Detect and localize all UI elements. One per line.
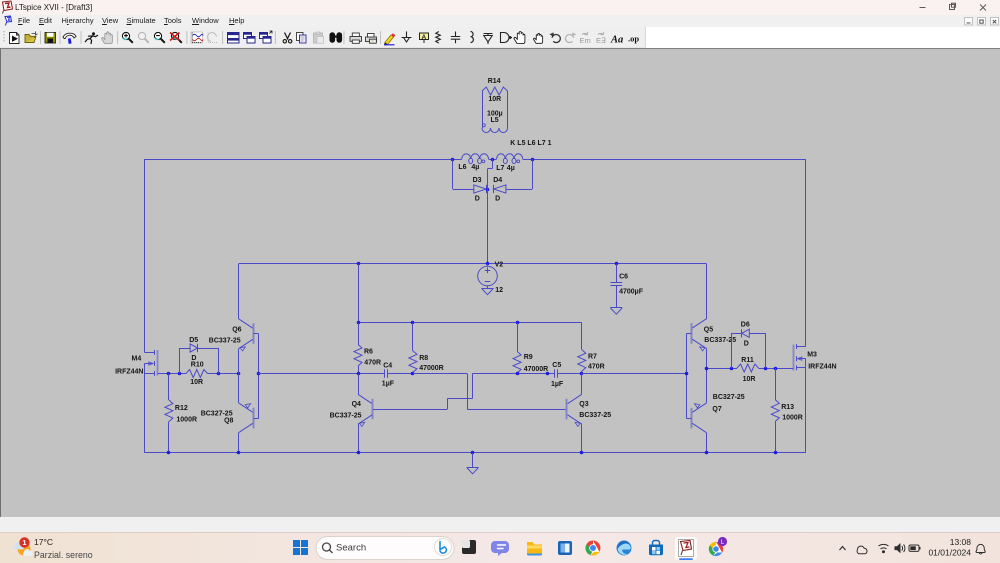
wire M3 source to ground rail (805, 368, 807, 453)
diode D5 (179, 337, 218, 374)
wire left drop to M4 drain (144, 159, 146, 352)
svg-text:Q5: Q5 (704, 326, 713, 333)
control panel hammer (63, 33, 76, 44)
svg-text:13:08: 13:08 (950, 537, 972, 547)
store icon (649, 541, 663, 556)
nmos M4 (115, 350, 169, 376)
search pill (316, 537, 454, 560)
capacitor C6 (610, 264, 643, 308)
node dot D5 R10 right (217, 372, 221, 376)
wire crossover to Q3 base (467, 374, 567, 410)
svg-text:D4: D4 (493, 177, 502, 184)
npn Q5 (686, 319, 736, 368)
cascade (244, 33, 256, 44)
open (25, 32, 38, 43)
svg-text:R9: R9 (524, 354, 533, 361)
wire mid rail left drop to Q6 (238, 264, 240, 319)
node dot Q6 Q8 emitters (237, 372, 241, 376)
E3 gray (596, 32, 606, 45)
svg-text:D: D (191, 355, 196, 362)
svg-text:V2: V2 (495, 262, 504, 269)
new schematic (10, 33, 20, 44)
wire R8 node to crossover (413, 373, 467, 375)
status bar (0, 517, 1000, 532)
undo (550, 32, 561, 42)
node dot right of L7 (531, 158, 535, 162)
chrome icon (585, 540, 600, 555)
wire center tap jog to V2 (488, 159, 493, 264)
npn Q6 (209, 319, 259, 374)
svg-text:L7: L7 (496, 165, 504, 172)
node dot rail R8 (411, 321, 415, 325)
svg-text:R14: R14 (488, 78, 501, 85)
node dot R12 top (167, 372, 171, 376)
K coupling statement (510, 140, 551, 147)
nmos M3 (775, 344, 836, 370)
wire Q4 base to crossover (378, 374, 473, 410)
svg-text:IRFZ44N: IRFZ44N (115, 369, 143, 376)
svg-text:R8: R8 (419, 355, 428, 362)
svg-text:Q6: Q6 (232, 327, 241, 334)
svg-text:IRFZ44N: IRFZ44N (808, 363, 836, 370)
svg-text:.op: .op (628, 34, 639, 44)
npn Q3 (567, 374, 612, 453)
grip (3, 31, 5, 43)
svg-text:01/01/2024: 01/01/2024 (928, 548, 971, 558)
node dot mid rail V2 (486, 262, 490, 266)
svg-text:C5: C5 (552, 362, 561, 369)
component gate icon (501, 33, 513, 43)
onedrive cloud (857, 546, 867, 554)
wire top rail mid segment (489, 159, 497, 161)
svg-text:C4: C4 (383, 362, 392, 369)
wire right diode branch (506, 159, 533, 190)
ltspice taskbar icon active (675, 537, 697, 560)
resistor R10 (186, 361, 239, 385)
windows logo (293, 540, 308, 555)
node dot rail R13 (774, 451, 778, 455)
run man (85, 32, 97, 43)
diode D3 (473, 177, 487, 202)
task view icon (462, 540, 476, 554)
node dot mid rail C6 (615, 262, 619, 266)
wire mid rail (239, 263, 707, 265)
svg-text:BC337-25: BC337-25 (579, 412, 611, 419)
node dot base tie (257, 372, 261, 376)
bell (976, 544, 985, 554)
node dot Q5 Q7 base (685, 372, 689, 376)
cut (283, 33, 292, 44)
svg-text:R7: R7 (588, 354, 597, 361)
svg-text:10R: 10R (488, 96, 501, 103)
npn Q4 (330, 374, 378, 453)
edge icon (617, 541, 632, 556)
svg-text:M3: M3 (807, 352, 817, 359)
svg-text:D: D (744, 340, 749, 347)
svg-text:M4: M4 (132, 355, 142, 362)
tile vert (260, 31, 273, 43)
print (350, 33, 362, 43)
inductor L6 (458, 154, 488, 171)
teams chat icon (491, 541, 509, 556)
pnp Q7 (686, 368, 745, 453)
svg-text:47000R: 47000R (419, 365, 444, 372)
wire mid rail right drop to Q5 (706, 264, 708, 319)
move hand (514, 32, 525, 44)
svg-text:Q7: Q7 (712, 406, 721, 413)
svg-text:Q3: Q3 (579, 401, 588, 408)
inductor L5 (482, 91, 508, 133)
resistor R9 (513, 323, 548, 373)
node dot D5 R10 left (178, 372, 182, 376)
svg-text:BC337-25: BC337-25 (330, 412, 362, 419)
node dot rail Q8 (237, 451, 241, 455)
inductor icon (471, 32, 474, 43)
ground icon (402, 32, 412, 43)
capacitor icon (451, 32, 460, 44)
node dot mid rail R6 branch (357, 262, 361, 266)
svg-text:4700µF: 4700µF (619, 288, 644, 295)
wire pencil (384, 33, 395, 45)
svg-text:4µ: 4µ (471, 164, 479, 171)
node dot rail R12 (167, 451, 171, 455)
wire M4 source to ground rail (144, 374, 146, 453)
diode icon (484, 34, 493, 45)
halt hand (gray) (102, 32, 113, 44)
node dot R7 bottom (580, 372, 584, 376)
chrome icon with purple badge (709, 537, 727, 556)
zoom back (gray) (138, 32, 148, 42)
wire Q6 Q8 base tie (258, 334, 260, 419)
zoom extents (170, 32, 182, 42)
find binoculars (330, 32, 343, 43)
svg-text:470R: 470R (588, 364, 605, 371)
svg-text:Q4: Q4 (352, 401, 361, 408)
svg-text:470R: 470R (364, 360, 381, 367)
wire Q5 Q7 emitters to R11 (707, 368, 738, 370)
node dot R13 top (774, 367, 778, 371)
toolbar (0, 27, 1000, 48)
svg-text:R6: R6 (364, 348, 373, 355)
weather widget icon (14, 537, 33, 556)
wire R7 node to Q5 Q7 bases (582, 373, 687, 375)
svg-text:Em: Em (580, 36, 591, 45)
ground below C6 (610, 308, 622, 315)
node dot D3 D4 junction (486, 188, 490, 192)
wire top rail left segment (145, 159, 462, 161)
node dot rail R9 (516, 321, 520, 325)
svg-text:L5: L5 (491, 117, 499, 124)
svg-text:D3: D3 (473, 177, 482, 184)
svg-text:1: 1 (22, 538, 26, 547)
node dot D6 R11 left (730, 367, 734, 371)
save (45, 33, 56, 44)
svg-text:Q8: Q8 (224, 417, 233, 424)
pnp Q8 (201, 374, 259, 453)
svg-text:1000R: 1000R (782, 415, 803, 422)
svg-text:BC337-25: BC337-25 (209, 337, 241, 344)
resistor R11 (737, 357, 775, 383)
tile horiz (228, 33, 240, 44)
copy (297, 33, 307, 44)
ground symbol main (467, 453, 479, 474)
node dot R6 bottom (357, 372, 361, 376)
blue window icon (558, 541, 572, 555)
svg-text:12: 12 (495, 287, 503, 294)
svg-text:L6: L6 (458, 164, 466, 171)
file explorer icon (527, 542, 542, 556)
node dot emitters right (705, 367, 709, 371)
zoom out (154, 32, 164, 42)
diode D4 (493, 177, 506, 202)
node dot rail R6 (357, 321, 361, 325)
capacitor C4 (382, 362, 413, 387)
wire crossover to R9 node (473, 373, 555, 375)
node dot left of L6 (451, 158, 455, 162)
node dot between L6 L7 (491, 158, 495, 162)
wire Q5 Q7 base tie (686, 333, 688, 418)
menu bar (0, 15, 1000, 27)
svg-text:Aa: Aa (610, 35, 623, 46)
svg-text:R11: R11 (741, 357, 754, 364)
battery pen (909, 545, 920, 551)
wire right drop to M3 drain (805, 159, 807, 347)
node dot D6 R11 right (764, 367, 768, 371)
wifi (879, 544, 889, 552)
svg-text:10R: 10R (743, 376, 756, 383)
resistor R14 (482, 78, 508, 103)
redo gray (565, 32, 576, 42)
wire resistor rail (358, 264, 582, 323)
svg-text:Search: Search (336, 543, 366, 554)
resistor R7 (578, 323, 605, 374)
svg-text:R13: R13 (781, 404, 794, 411)
node dot rail Q7 (705, 451, 709, 455)
svg-text:E∃: E∃ (596, 36, 606, 45)
inductor L7 (496, 154, 523, 172)
wire bases to R6 node (258, 373, 384, 375)
node dot rail Q4 (357, 451, 361, 455)
label A (420, 33, 429, 43)
drag hand (534, 33, 543, 43)
wire left diode branch (453, 159, 474, 190)
title bar (0, 0, 1000, 15)
svg-text:1µF: 1µF (551, 381, 564, 388)
diode D6 (731, 322, 766, 368)
print preview (366, 34, 377, 44)
resistor R12 (165, 374, 197, 453)
Em gray (580, 32, 591, 45)
wire top rail right segment (523, 159, 806, 161)
wire M4 gate node (169, 373, 186, 375)
node dot R9 bottom (516, 372, 520, 376)
svg-text:BC327-25: BC327-25 (713, 394, 745, 401)
speaker (895, 544, 905, 552)
svg-text:R12: R12 (175, 405, 188, 412)
svg-text:10R: 10R (190, 379, 203, 386)
svg-text:D6: D6 (741, 322, 750, 329)
ground below V2 (482, 288, 494, 294)
node dot rail ground (471, 451, 475, 455)
sep lines (41, 31, 381, 44)
svg-text:D: D (495, 195, 500, 202)
tray chevron (840, 547, 846, 551)
capacitor C5 (551, 362, 582, 388)
svg-text:D5: D5 (189, 337, 198, 344)
resistor icon (436, 32, 441, 44)
svg-text:4µ: 4µ (507, 165, 515, 172)
zoom in (122, 32, 132, 42)
svg-text:C6: C6 (619, 273, 628, 280)
svg-text:D: D (475, 195, 480, 202)
waveform (191, 32, 203, 43)
node dot C5 left (546, 372, 550, 376)
svg-text:47000R: 47000R (524, 366, 549, 373)
node dot rail Q3 (580, 451, 584, 455)
svg-text:R10: R10 (191, 361, 204, 368)
resistor R8 (409, 323, 444, 374)
node dot R8 bottom (411, 372, 415, 376)
waveform gray (208, 33, 218, 43)
wire ground rail (145, 452, 806, 454)
voltage source V2 (478, 262, 504, 295)
resistor R13 (771, 368, 803, 453)
svg-text:1000R: 1000R (176, 417, 197, 424)
svg-text:1µF: 1µF (382, 381, 395, 388)
resistor R6 (354, 323, 381, 374)
taskbar (0, 532, 1000, 563)
svg-text:K L5 L6 L7 1: K L5 L6 L7 1 (510, 140, 551, 147)
paste gray (314, 32, 324, 43)
